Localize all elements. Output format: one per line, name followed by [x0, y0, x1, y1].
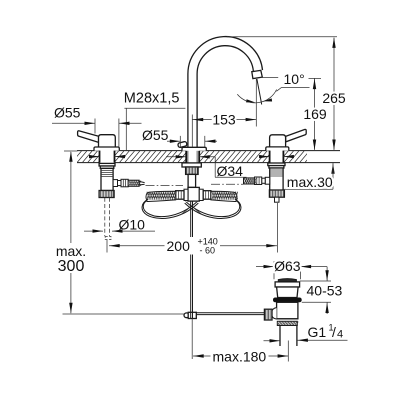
deck hole right valve: [270, 150, 284, 163]
deck hole spout: [186, 150, 199, 163]
spout shank below deck: [182, 163, 201, 188]
vertical reference below joint: [191, 319, 193, 360]
left valve dashed pull-rod position: [105, 198, 111, 240]
horizontal pop-up lever rod: [196, 313, 264, 315]
svg-text:max.180: max.180: [213, 348, 267, 364]
leader from spout tip: [263, 77, 279, 79]
dimension Ø55 spout base: [142, 127, 217, 147]
svg-text:10°: 10°: [284, 71, 305, 87]
svg-text:4: 4: [337, 329, 343, 341]
pull rod clamp joint: [184, 312, 196, 318]
svg-text:Ø55: Ø55: [54, 105, 81, 121]
left valve hose centreline: [146, 184, 184, 186]
left valve escutcheon flange: [94, 147, 119, 151]
drain rod knurled coupler: [264, 309, 272, 320]
spout shank in deck: [186, 151, 199, 163]
dimension max.300: [53, 151, 89, 313]
drain tailpipe: [277, 319, 298, 346]
angle arc with arrows: [237, 90, 276, 103]
countertop deck cross-section with hatching: [72, 151, 315, 162]
spout base escutcheon flange: [182, 147, 206, 150]
right valve lever handle: [270, 129, 307, 147]
reference line to max300: [63, 313, 185, 315]
drain plug top: [278, 279, 296, 282]
dimension Ø55 left valve: [52, 105, 142, 147]
svg-text:265: 265: [322, 90, 346, 106]
drain thread section: [277, 321, 298, 325]
svg-text:Ø63: Ø63: [274, 258, 301, 274]
left valve lever handle: [78, 131, 116, 147]
left valve braided hose stub: [128, 180, 144, 186]
svg-text:max.30: max.30: [287, 174, 333, 190]
pop-up pull rod: [191, 201, 193, 312]
hose loop centrelines: [181, 202, 202, 215]
deck hole left valve: [100, 150, 115, 163]
svg-text:Ø55: Ø55: [142, 127, 169, 143]
svg-text:169: 169: [303, 106, 327, 122]
svg-text:max.: max.: [56, 243, 86, 259]
right valve body below deck: [255, 163, 286, 190]
svg-text:/: /: [332, 324, 336, 340]
label M28x1,5: [124, 90, 186, 150]
dimension 200 +140 -60: [107, 203, 278, 256]
svg-text:153: 153: [212, 112, 236, 128]
right valve shank in deck: [270, 151, 284, 163]
svg-text:40-53: 40-53: [307, 282, 343, 298]
left valve lower hex nut: [99, 191, 114, 198]
drain rubber seal: [273, 298, 302, 303]
deck top surface line: [77, 150, 340, 152]
right valve braided hose stub: [244, 178, 257, 184]
dimension Ø63: [256, 258, 327, 279]
dimension 265: [322, 37, 346, 150]
dimension max.30: [285, 163, 335, 190]
svg-text:- 60: - 60: [200, 246, 216, 256]
label G1 1/4: [264, 323, 348, 343]
hole arrows left valve: [89, 155, 126, 158]
water stream line at 10 deg: [257, 79, 262, 105]
dimension Ø10: [84, 216, 155, 233]
svg-text:G1: G1: [308, 324, 327, 340]
label Ø34: [215, 157, 247, 179]
dimension 169: [303, 78, 327, 150]
vertical reference for stream: [255, 79, 257, 127]
deck bottom surface line: [77, 162, 340, 164]
left valve body below deck: [99, 163, 128, 190]
right hose loop: [185, 199, 241, 218]
spout outlet aerator tip: [252, 70, 262, 78]
left hose loop: [142, 199, 198, 218]
right braided hose arm: [211, 191, 238, 201]
drain flange: [275, 282, 300, 298]
pop-up pull rod knob at spout base: [178, 141, 188, 148]
left valve shank in deck: [100, 151, 115, 163]
dimension 153: [192, 112, 256, 147]
label 10 deg: [276, 71, 309, 91]
svg-text:200: 200: [167, 238, 191, 254]
centre tee connector: [176, 187, 211, 201]
right valve lower hex nut: [269, 190, 284, 202]
svg-text:Ø34: Ø34: [217, 163, 244, 179]
right valve escutcheon flange: [266, 147, 289, 151]
svg-text:300: 300: [58, 258, 85, 275]
extension line from spout top: [227, 36, 337, 38]
dimension max.180: [193, 341, 288, 365]
svg-text:M28x1,5: M28x1,5: [124, 90, 180, 106]
left braided hose arm: [146, 191, 176, 201]
svg-text:Ø10: Ø10: [119, 216, 146, 232]
dimension 40-53: [300, 267, 343, 314]
hole arrows right valve: [259, 155, 294, 158]
right valve hose centreline: [211, 183, 243, 185]
drain body: [272, 302, 298, 319]
spout gooseneck tube: [188, 37, 263, 148]
hole arrows spout: [166, 155, 215, 158]
